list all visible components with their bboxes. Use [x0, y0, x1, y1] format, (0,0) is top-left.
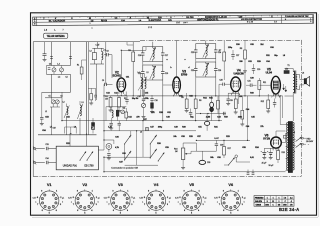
wire	[125, 92, 127, 96]
resistor R9	[234, 99, 237, 109]
svg-text:C59: C59	[165, 147, 168, 149]
wire (B+ bus)	[104, 95, 283, 97]
svg-text:C33: C33	[45, 144, 48, 146]
svg-text:C56: C56	[217, 157, 220, 159]
svg-text:170: 170	[290, 204, 293, 206]
svg-text:a4: a4	[140, 132, 142, 134]
svg-text:V5: V5	[189, 182, 195, 187]
wire	[244, 74, 246, 96]
svg-text:R9: R9	[230, 100, 232, 102]
ground	[266, 110, 270, 112]
resistor R1	[109, 98, 112, 108]
svg-text:4: 4	[198, 209, 199, 212]
wire	[111, 55, 113, 78]
svg-text:-7: -7	[284, 201, 286, 203]
svg-text:5: 5	[267, 201, 268, 203]
svg-text:a: a	[71, 202, 72, 204]
wire	[186, 93, 188, 99]
svg-text:C23: C23	[191, 52, 194, 54]
tube socket V5	[175, 182, 207, 214]
ground	[107, 157, 111, 159]
capacitor C27	[231, 50, 239, 60]
svg-text:1: 1	[199, 191, 200, 193]
svg-text:C63: C63	[248, 61, 251, 63]
tube V6	[263, 134, 281, 151]
wire	[70, 127, 72, 134]
svg-text:1: 1	[127, 191, 128, 193]
svg-text:C47: C47	[150, 126, 153, 129]
svg-text:BALETA: BALETA	[255, 200, 262, 203]
capacitor C73	[222, 112, 224, 115]
svg-text:8: 8	[144, 197, 145, 199]
svg-text:C27: C27	[236, 55, 239, 57]
junction	[70, 133, 71, 134]
svg-text:C11: C11	[126, 77, 129, 79]
resistor R35 cluster	[88, 88, 96, 105]
resistor R7	[223, 52, 226, 61]
svg-text:C13: C13	[106, 93, 109, 95]
svg-text:C19: C19	[165, 73, 168, 75]
svg-text:L2: L2	[62, 102, 64, 104]
wire	[110, 96, 112, 98]
svg-text:9: 9	[77, 191, 78, 193]
svg-text:C24: C24	[218, 52, 221, 54]
junction	[150, 158, 151, 159]
pickup terminal P.U. 1	[33, 146, 45, 151]
svg-text:1: 1	[231, 94, 232, 96]
svg-text:g1: g1	[205, 198, 207, 200]
svg-text:a: a	[294, 151, 295, 153]
coil L3 (OC loop)	[77, 101, 83, 135]
trimmer pair C5 C6	[45, 96, 63, 108]
svg-text:1: 1	[267, 197, 268, 199]
svg-text:0: 0	[294, 132, 295, 134]
chassis boundary (dash-dot)	[33, 40, 301, 177]
svg-text:R28: R28	[159, 112, 162, 114]
wire	[258, 78, 260, 81]
tube V4	[231, 69, 245, 94]
wire	[235, 158, 237, 163]
svg-text:9: 9	[148, 191, 149, 193]
svg-text:C16: C16	[154, 100, 157, 102]
svg-text:C36: C36	[115, 137, 118, 139]
svg-text:R20: R20	[182, 127, 185, 129]
junction	[156, 135, 157, 136]
svg-text:C58: C58	[181, 136, 184, 138]
svg-text:UY1N: UY1N	[263, 137, 270, 141]
fuse/lamp	[283, 136, 286, 139]
svg-text:C62: C62	[167, 112, 170, 114]
svg-text:0,047: 0,047	[214, 138, 219, 140]
pickup terminal P.U. 2	[33, 160, 45, 165]
junction	[124, 160, 125, 161]
resistor R6	[194, 99, 197, 109]
wire (V2 anode)	[120, 50, 122, 78]
svg-text:UNION: UNION	[256, 204, 262, 206]
svg-text:C51: C51	[198, 127, 201, 129]
svg-text:2,2M: 2,2M	[206, 117, 211, 119]
svg-text:a: a	[35, 202, 36, 204]
ground	[117, 110, 121, 112]
capacitor C9 (grid)	[102, 80, 113, 86]
svg-text:9: 9	[112, 191, 113, 193]
wire	[142, 62, 144, 66]
svg-text:1 5 2: 1 5 2	[148, 27, 152, 29]
svg-text:1: 1	[56, 191, 57, 193]
wire	[281, 142, 285, 144]
svg-text:R30: R30	[236, 44, 239, 46]
capacitor C70 cluster	[109, 121, 121, 131]
svg-text:g1: g1	[169, 198, 171, 200]
svg-text:5: 5	[156, 212, 157, 214]
ground	[109, 109, 113, 111]
band switch S-B	[150, 135, 165, 162]
junction	[228, 165, 229, 166]
trimmer group C3 C4	[47, 63, 71, 78]
svg-text:1: 1	[279, 201, 280, 203]
svg-text:C37: C37	[119, 162, 122, 164]
svg-text:3: 3	[125, 95, 126, 97]
wire	[126, 42, 128, 45]
wire	[96, 64, 98, 100]
electrolytic C42	[267, 148, 273, 157]
svg-text:1: 1	[163, 191, 164, 193]
svg-text:7: 7	[219, 204, 220, 206]
svg-text:EF89: EF89	[181, 73, 188, 77]
svg-text:C38: C38	[207, 162, 210, 164]
wire	[247, 96, 249, 140]
svg-text:4: 4	[237, 209, 238, 212]
tube V5	[266, 68, 281, 97]
border frame	[31, 13, 319, 218]
svg-text:C17: C17	[165, 55, 168, 57]
svg-text:C34: C34	[45, 158, 48, 160]
svg-text:UL84: UL84	[266, 71, 273, 75]
wire	[182, 164, 184, 168]
svg-text:C45: C45	[251, 116, 254, 119]
svg-text:L3: L3	[81, 102, 83, 104]
svg-text:UNIDAD P.M.: UNIDAD P.M.	[63, 165, 78, 168]
wire	[86, 134, 88, 147]
junction	[130, 151, 131, 152]
capacitor C8 vertical	[42, 42, 46, 62]
resistor R12 (cathode)	[267, 100, 270, 109]
wire	[104, 156, 150, 158]
capacitor C28	[219, 80, 231, 86]
wire	[285, 171, 287, 172]
svg-text:12: 12	[272, 201, 274, 203]
wire	[275, 131, 277, 137]
svg-text:0,01: 0,01	[250, 157, 254, 159]
svg-text:C30: C30	[250, 78, 253, 80]
band switch S-A	[124, 131, 131, 161]
svg-text:4: 4	[91, 209, 92, 212]
phono unit box (UNIDAD P.M.)	[56, 146, 98, 170]
resistor R33	[240, 96, 244, 126]
svg-text:EB 1769: EB 1769	[84, 165, 94, 168]
speaker LS	[297, 73, 309, 90]
wire	[103, 84, 105, 96]
electrolytic C75 (dark)	[92, 118, 95, 134]
wire	[105, 42, 107, 85]
svg-text:V1: V1	[47, 182, 53, 187]
wire	[124, 144, 126, 160]
svg-text:1M: 1M	[175, 151, 178, 153]
capacitor C7 + ground	[40, 92, 44, 125]
wire	[215, 77, 217, 96]
svg-text:EL CAZADOR: EL CAZADOR	[49, 20, 66, 23]
wire	[104, 139, 114, 141]
svg-text:-2: -2	[290, 201, 292, 203]
wire (OPT primary feed)	[292, 96, 294, 121]
wire	[61, 92, 63, 120]
svg-text:R1: R1	[77, 65, 79, 67]
svg-text:9: 9	[279, 97, 280, 99]
junction	[207, 113, 208, 114]
resistor R34	[77, 60, 86, 80]
svg-text:1: 1	[92, 191, 93, 193]
svg-text:L7: L7	[50, 127, 52, 129]
svg-text:9: 9	[184, 191, 185, 193]
svg-text:a: a	[142, 202, 143, 204]
coil L2 (OM loop)	[62, 102, 69, 135]
wire	[162, 80, 164, 121]
svg-text:C6: C6	[60, 96, 62, 98]
wire	[98, 149, 104, 151]
switch contacts in PM unit	[80, 152, 94, 161]
resistor R11	[258, 81, 261, 90]
svg-text:C5: C5	[48, 96, 50, 98]
svg-text:8: 8	[219, 197, 220, 199]
ground	[234, 111, 238, 113]
annotation under strip	[44, 27, 152, 32]
svg-text:c: c	[184, 59, 185, 61]
wire	[118, 96, 120, 98]
svg-text:R26: R26	[157, 143, 160, 145]
svg-text:C52: C52	[66, 117, 69, 119]
junction	[80, 160, 81, 161]
resistor R18	[277, 151, 280, 160]
wire	[75, 127, 77, 134]
svg-text:R17: R17	[228, 148, 231, 150]
svg-text:R11: R11	[263, 82, 266, 84]
wire	[149, 144, 151, 158]
junction	[158, 161, 159, 162]
capacitor C77	[252, 172, 255, 174]
svg-text:6: 6	[239, 94, 240, 96]
svg-text:C49: C49	[174, 126, 177, 129]
junction	[156, 149, 157, 150]
svg-text:1: 1	[279, 197, 280, 199]
wire	[205, 41, 207, 44]
svg-text:V3: V3	[118, 182, 124, 187]
parts location index strip	[33, 15, 314, 26]
wire	[256, 84, 258, 86]
wire	[196, 139, 250, 141]
svg-text:SINTONIZADOR F.I.: SINTONIZADOR F.I.	[197, 18, 219, 21]
padding capacitor chain	[150, 90, 158, 114]
wire (B+ feed)	[279, 96, 281, 125]
svg-text:2k2: 2k2	[260, 44, 263, 46]
wire	[235, 109, 237, 113]
wire	[267, 94, 269, 100]
capacitor C34	[45, 161, 47, 164]
value labels	[42, 44, 285, 164]
resistor R2	[118, 98, 121, 108]
svg-text:PRIMARIO: PRIMARIO	[255, 196, 264, 199]
svg-text:C48: C48	[166, 116, 169, 119]
svg-text:C28: C28	[219, 80, 222, 82]
svg-text:L8: L8	[283, 55, 285, 57]
electrolytic C74	[205, 114, 210, 131]
svg-text:3: 3	[242, 204, 243, 206]
svg-text:C25: C25	[191, 70, 194, 72]
svg-text:6: 6	[148, 210, 149, 212]
svg-text:R12: R12	[261, 101, 264, 103]
svg-text:1: 1	[117, 95, 118, 97]
wire	[51, 107, 53, 135]
tube V3	[173, 70, 188, 96]
svg-text:S1 C30: S1 C30	[186, 17, 194, 19]
oscillator trimmer chain	[137, 90, 145, 119]
capacitor C1	[50, 56, 53, 58]
mains switch S4	[293, 137, 301, 147]
svg-text:R23: R23	[226, 136, 229, 138]
svg-text:C15: C15	[137, 96, 140, 98]
svg-text:C55: C55	[242, 147, 245, 149]
output transformer T1	[285, 65, 298, 96]
svg-text:7: 7	[37, 204, 38, 206]
svg-text:5: 5	[84, 212, 85, 214]
svg-text:C12: C12	[128, 117, 131, 119]
svg-text:C66: C66	[270, 47, 273, 49]
svg-text:3: 3	[167, 204, 168, 206]
wire	[171, 84, 173, 86]
svg-text:R18: R18	[282, 152, 285, 154]
svg-text:2,6: 2,6	[274, 21, 277, 23]
svg-text:k: k	[205, 202, 206, 204]
svg-text:C8: C8	[106, 51, 108, 53]
svg-text:C65: C65	[250, 44, 253, 46]
wire	[146, 128, 148, 131]
capacitor C2	[69, 56, 72, 58]
svg-text:L1: L1	[45, 111, 47, 113]
svg-text:g1: g1	[133, 198, 135, 200]
svg-text:7: 7	[73, 204, 74, 206]
svg-text:C39: C39	[220, 145, 223, 147]
capacitor C10	[125, 96, 128, 105]
svg-text:L5: L5	[146, 72, 148, 74]
electrolytic C41	[261, 148, 267, 157]
wire	[142, 121, 144, 157]
wire	[223, 41, 225, 52]
svg-text:B2E 34-A: B2E 34-A	[279, 207, 299, 212]
tube socket V2	[68, 182, 100, 214]
svg-text:a: a	[107, 202, 108, 204]
svg-text:C29: C29	[257, 69, 260, 71]
svg-text:7: 7	[62, 29, 63, 31]
ground	[269, 157, 273, 159]
resistor R13	[284, 71, 289, 74]
svg-text:C22: C22	[189, 96, 192, 98]
junction	[150, 144, 151, 145]
tube socket V4	[139, 182, 171, 214]
svg-text:k: k	[133, 202, 134, 204]
svg-text:7: 7	[180, 204, 181, 206]
svg-text:R29: R29	[257, 61, 260, 63]
wire (AGC bus)	[62, 120, 222, 122]
tube V2	[113, 71, 126, 94]
oscillator coil L4/L5	[137, 72, 148, 96]
wire	[271, 130, 282, 132]
svg-text:R21: R21	[214, 127, 217, 129]
svg-text:4: 4	[163, 209, 164, 212]
svg-text:C31: C31	[247, 81, 250, 83]
capacitor C32	[273, 99, 276, 108]
svg-text:V6: V6	[228, 182, 234, 187]
svg-text:7: 7	[108, 204, 109, 206]
phono jack J1	[106, 144, 112, 153]
loop antenna panel wires	[38, 42, 97, 135]
TELAR ANTENA label box	[44, 33, 68, 38]
wire	[42, 91, 71, 93]
svg-text:6: 6	[77, 210, 78, 212]
wire	[195, 96, 197, 99]
svg-text:5: 5	[191, 212, 192, 214]
arrow (to PSU)	[283, 84, 287, 92]
svg-text:7: 7	[173, 96, 174, 98]
svg-text:g1: g1	[98, 198, 100, 200]
tube socket V3	[104, 182, 136, 214]
ground	[185, 110, 189, 112]
svg-text:RED: RED	[307, 139, 312, 141]
ground	[181, 167, 185, 169]
svg-text:a: a	[92, 28, 93, 30]
wire	[275, 94, 277, 98]
svg-text:9: 9	[121, 95, 122, 97]
tone switch S3	[224, 155, 238, 166]
capacitor C39	[214, 138, 223, 151]
wire	[195, 59, 197, 63]
svg-text:R8: R8	[240, 48, 242, 50]
wire	[103, 157, 105, 172]
svg-text:7: 7	[272, 97, 273, 99]
svg-text:3: 3	[131, 204, 132, 206]
svg-text:V2: V2	[82, 182, 88, 187]
resistor R32	[217, 96, 220, 114]
svg-text:470: 470	[136, 116, 139, 119]
wire (detector bus)	[104, 130, 196, 132]
capacitor C35	[107, 153, 110, 155]
svg-text:g1: g1	[62, 198, 64, 200]
svg-text:R27: R27	[143, 119, 146, 121]
svg-text:8: 8	[108, 197, 109, 199]
svg-text:1: 1	[238, 191, 239, 193]
wire	[183, 142, 196, 144]
svg-text:9: 9	[41, 191, 42, 193]
wire	[196, 113, 226, 115]
capacitor C20	[189, 109, 192, 118]
wire	[264, 147, 278, 149]
corner loop with capacitor C72	[226, 90, 238, 106]
diode D1	[243, 70, 246, 74]
power transformer T2	[286, 122, 295, 173]
svg-text:7: 7	[144, 204, 145, 206]
wire	[284, 124, 286, 126]
wire	[283, 95, 285, 97]
svg-text:k: k	[169, 202, 170, 204]
svg-text:C60: C60	[122, 153, 125, 155]
